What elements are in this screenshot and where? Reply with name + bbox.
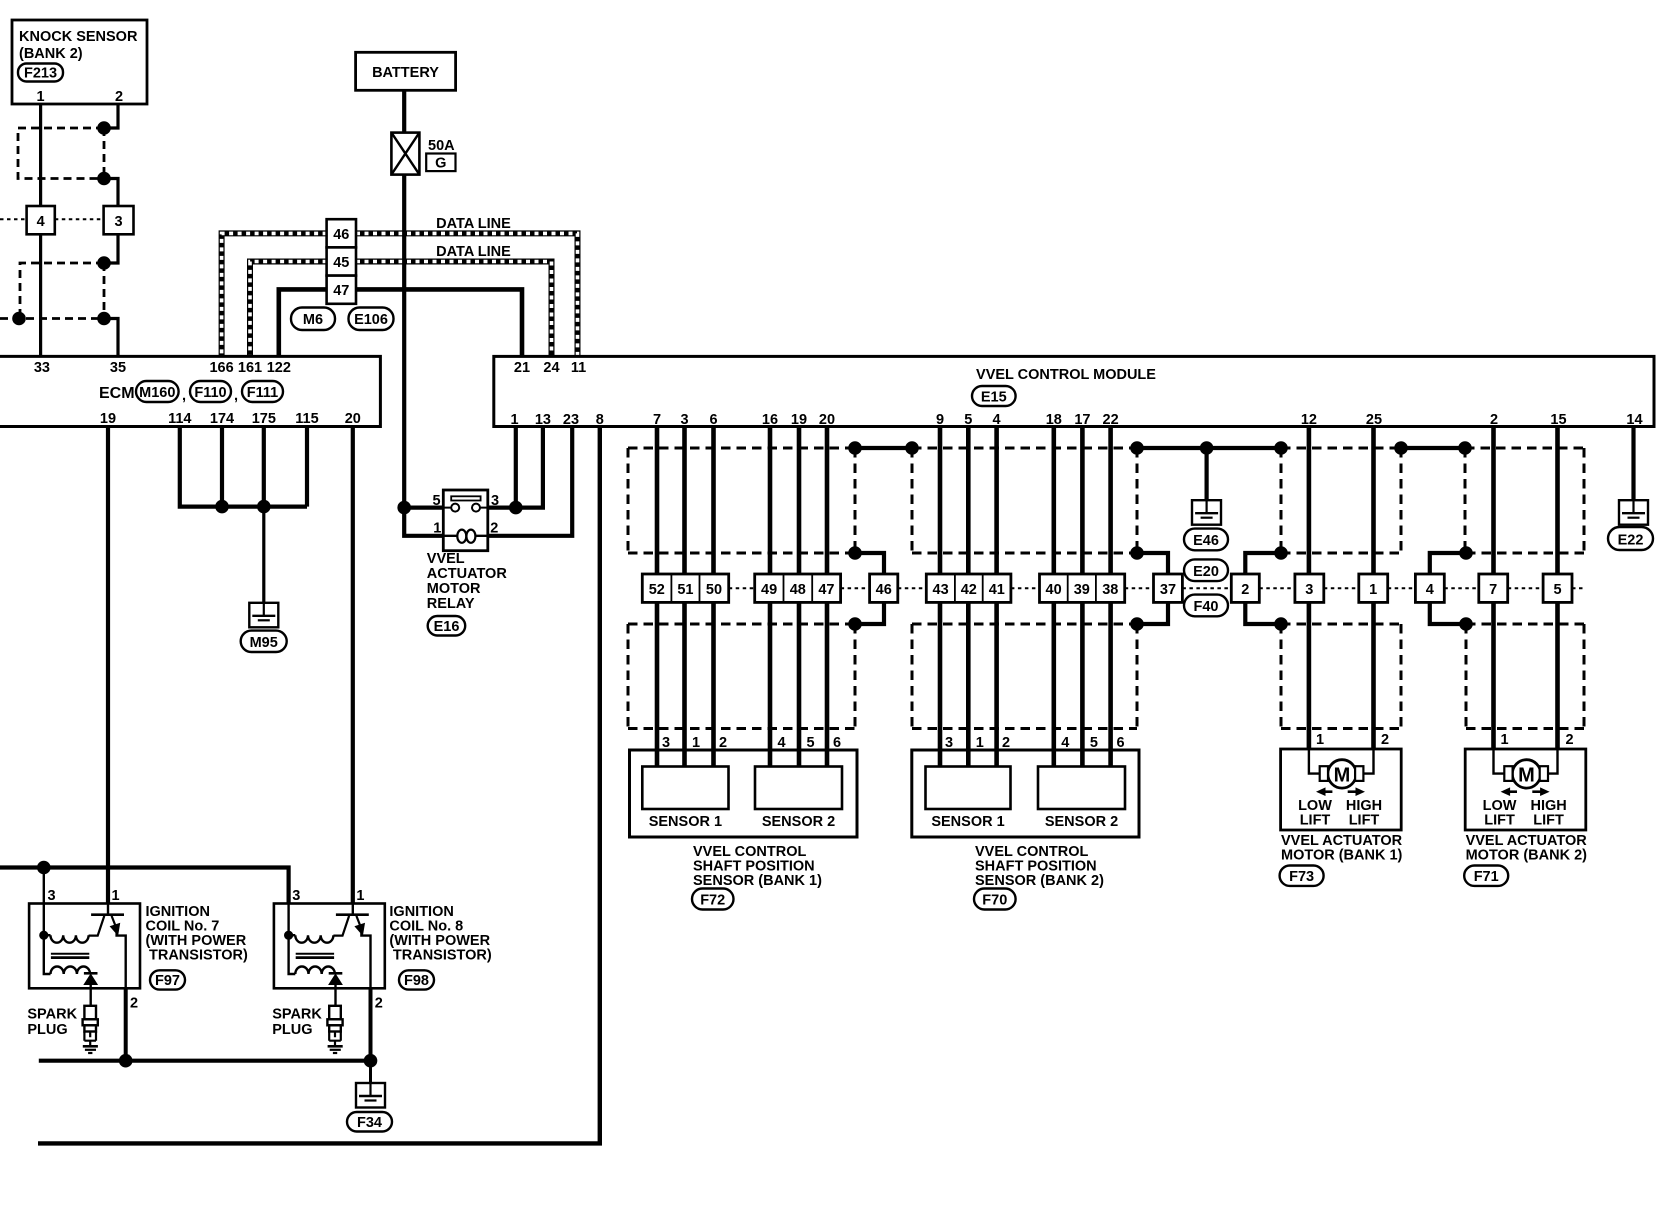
ground symbol F34 xyxy=(356,1083,385,1108)
svg-text:DATA LINE: DATA LINE xyxy=(436,216,511,232)
wire module 14 to ground E22 xyxy=(1631,427,1635,501)
junction dot shield upper top xyxy=(97,121,111,135)
connector box 2 xyxy=(1231,574,1259,602)
VVEL control shaft position sensor bank2 box F70 xyxy=(912,750,1139,837)
svg-text:VVEL CONTROL MODULE: VVEL CONTROL MODULE xyxy=(976,367,1156,383)
connector oval F73 xyxy=(1280,866,1324,886)
svg-text:2: 2 xyxy=(130,996,138,1012)
connector oval F40 xyxy=(1184,595,1228,617)
sensor bank1 pin labels xyxy=(662,735,841,751)
svg-text:1: 1 xyxy=(510,412,518,428)
svg-text:114: 114 xyxy=(168,411,191,427)
svg-text:TRANSISTOR): TRANSISTOR) xyxy=(393,948,492,964)
coil8 pin labels xyxy=(292,888,383,1012)
svg-text:MOTOR (BANK 1): MOTOR (BANK 1) xyxy=(1281,848,1403,864)
wire battery junction to relay pin 1 xyxy=(404,508,443,536)
svg-text:4: 4 xyxy=(993,412,1001,428)
svg-text:,: , xyxy=(234,388,238,404)
wire module 23 to relay pin 2 xyxy=(488,427,572,536)
svg-text:6: 6 xyxy=(709,412,717,428)
junction dot shield lower top xyxy=(97,256,111,270)
svg-text:SENSOR 1: SENSOR 1 xyxy=(931,814,1004,830)
data line 45 striped right run to module 24 xyxy=(356,262,552,357)
svg-text:SENSOR (BANK 1): SENSOR (BANK 1) xyxy=(693,873,822,889)
ignition coil No.8 symbol xyxy=(274,904,385,1054)
sensor bank2 pin labels xyxy=(945,735,1125,751)
svg-text:F111: F111 xyxy=(247,385,278,401)
svg-text:BATTERY: BATTERY xyxy=(372,65,439,81)
svg-text:5: 5 xyxy=(964,412,972,428)
svg-text:2: 2 xyxy=(490,521,498,537)
fuse 50A G xyxy=(391,133,455,175)
label VVEL ACTUATOR MOTOR (BANK 2) xyxy=(1466,833,1588,864)
wire bus to ground F34 xyxy=(369,1061,372,1083)
svg-text:PLUG: PLUG xyxy=(272,1022,312,1038)
junction dot battery relay xyxy=(397,501,411,515)
svg-text:3: 3 xyxy=(680,412,688,428)
svg-text:46: 46 xyxy=(333,227,349,243)
junction dot module1 relay3 xyxy=(509,501,523,515)
label IGNITION COIL No.7 xyxy=(146,904,248,964)
svg-text:E16: E16 xyxy=(434,619,460,635)
ignition coil No.7 symbol xyxy=(29,904,140,1054)
sensor bank2 column wires upper xyxy=(940,427,1111,575)
label SPARK PLUG coil7 xyxy=(27,1007,77,1039)
svg-text:M95: M95 xyxy=(250,635,278,651)
motor1 pin labels xyxy=(1316,732,1389,748)
coil7 pin labels xyxy=(47,888,138,1012)
junction dot shield upper bottom xyxy=(97,172,111,186)
wire coil7 pin2 to bus xyxy=(124,988,128,1060)
ECM box xyxy=(0,356,380,427)
svg-text:PLUG: PLUG xyxy=(27,1022,67,1038)
svg-text:G: G xyxy=(435,156,446,172)
sensor bank1 column wires lower xyxy=(657,602,827,766)
svg-text:1: 1 xyxy=(1501,732,1509,748)
motor1 column wires xyxy=(1309,427,1374,750)
connector boxes 43 42 41 xyxy=(926,574,1011,602)
svg-text:M: M xyxy=(1334,765,1351,787)
module bottom pin labels xyxy=(510,412,1642,428)
connector oval F72 xyxy=(692,889,734,910)
svg-text:1: 1 xyxy=(36,89,44,105)
svg-text:17: 17 xyxy=(1074,412,1090,428)
wire battery junction to relay pin 5 xyxy=(404,506,443,510)
svg-text:VVEL: VVEL xyxy=(427,551,465,567)
label VVEL CONTROL SHAFT POSITION SENSOR (BANK 1) xyxy=(693,844,822,889)
knock sensor (bank 2) box F213 xyxy=(12,20,147,105)
connector box 46 xyxy=(870,574,898,602)
svg-text:39: 39 xyxy=(1074,582,1090,598)
wire ECM 20 to coil8 pin1 xyxy=(351,427,355,904)
sensor bank2 column wires lower xyxy=(940,602,1111,766)
svg-text:50A: 50A xyxy=(428,138,455,154)
data line 45 striped left run to ECM 161 xyxy=(250,262,327,357)
svg-text:8: 8 xyxy=(596,412,604,428)
motor2 pin labels xyxy=(1501,732,1574,748)
svg-text:LIFT: LIFT xyxy=(1533,813,1564,829)
wire ECM 115 to ground bus xyxy=(305,427,309,507)
svg-text:2: 2 xyxy=(1566,732,1574,748)
connector oval E106 xyxy=(349,308,394,331)
svg-text:SPARK: SPARK xyxy=(27,1007,77,1023)
wire battery feed down to relay xyxy=(402,175,406,508)
svg-text:MOTOR: MOTOR xyxy=(427,581,481,597)
shield dashed horizontals top row xyxy=(628,447,1584,450)
connector boxes 52 51 50 xyxy=(642,574,728,602)
junction dots lower shield row xyxy=(848,617,1473,631)
svg-text:3: 3 xyxy=(1305,582,1313,598)
connector box 3 xyxy=(104,206,134,234)
VVEL actuator motor bank2 box F71 xyxy=(1465,749,1586,830)
svg-text:122: 122 xyxy=(267,360,291,376)
svg-text:24: 24 xyxy=(543,360,559,376)
wire drain box46 top xyxy=(855,553,884,574)
wire feed line to coil pin3s xyxy=(0,868,289,904)
label VVEL CONTROL SHAFT POSITION SENSOR (BANK 2) xyxy=(975,844,1104,889)
svg-text:5: 5 xyxy=(1553,582,1561,598)
VVEL actuator motor bank1 box F73 xyxy=(1281,749,1402,830)
svg-text:LIFT: LIFT xyxy=(1300,813,1331,829)
svg-text:20: 20 xyxy=(345,411,361,427)
svg-text:33: 33 xyxy=(34,360,50,376)
wire knock pin2 upper solid segment xyxy=(104,104,118,128)
connector oval E46 xyxy=(1184,529,1228,551)
wire module 8 to bottom bus xyxy=(38,427,600,1144)
svg-text:166: 166 xyxy=(209,360,233,376)
wire drain box4 top xyxy=(1430,553,1466,574)
svg-text:45: 45 xyxy=(333,255,349,271)
svg-text:35: 35 xyxy=(110,360,126,376)
svg-text:SPARK: SPARK xyxy=(272,1007,322,1023)
connector oval E15 xyxy=(972,386,1016,406)
shield dashed line to left margin xyxy=(0,317,104,320)
svg-text:174: 174 xyxy=(210,411,234,427)
svg-text:3: 3 xyxy=(114,214,122,230)
svg-text:49: 49 xyxy=(761,582,777,598)
shield dashed box lower around knock wire xyxy=(20,263,104,319)
svg-text:1: 1 xyxy=(112,888,120,904)
shield dashed horizontals lower top row xyxy=(628,623,1584,626)
connector oval F71 xyxy=(1464,866,1508,886)
svg-text:7: 7 xyxy=(1489,582,1497,598)
wire shield drain to ground E46 xyxy=(1204,448,1208,500)
svg-text:15: 15 xyxy=(1550,412,1566,428)
wire drain box2 top xyxy=(1245,553,1281,574)
label VVEL ACTUATOR MOTOR (BANK 1) xyxy=(1281,833,1403,864)
svg-text:7: 7 xyxy=(653,412,661,428)
svg-text:19: 19 xyxy=(791,412,807,428)
svg-text:SENSOR 2: SENSOR 2 xyxy=(1045,814,1118,830)
data line 46 striped right run to module 11 xyxy=(356,233,578,356)
motor2 column wires xyxy=(1494,427,1558,750)
wire knock pin1 to ECM 33 xyxy=(39,104,42,356)
connector box 3 xyxy=(1295,574,1324,602)
svg-text:DATA LINE: DATA LINE xyxy=(436,244,511,260)
ground symbol M95 xyxy=(249,603,278,628)
svg-text:37: 37 xyxy=(1160,582,1176,598)
svg-text:MOTOR (BANK 2): MOTOR (BANK 2) xyxy=(1466,848,1588,864)
svg-text:25: 25 xyxy=(1366,412,1382,428)
connector oval E22 xyxy=(1608,527,1653,550)
connector oval F97 xyxy=(150,970,185,989)
connector oval E16 xyxy=(428,616,466,636)
svg-text:48: 48 xyxy=(790,582,806,598)
shield dashed verticals upper row xyxy=(628,448,1584,553)
svg-text:E22: E22 xyxy=(1618,533,1644,549)
connector boxes 49 48 47 xyxy=(755,574,841,602)
connector stack boxes 46 45 47 xyxy=(327,219,356,304)
svg-text:KNOCK SENSOR: KNOCK SENSOR xyxy=(19,29,138,45)
junction dot shield left branch xyxy=(12,312,26,326)
svg-text:M: M xyxy=(1518,765,1535,787)
shield dashed horizontals mid row xyxy=(628,552,1584,555)
shield dashed verticals lower row xyxy=(628,624,1584,729)
svg-text:ACTUATOR: ACTUATOR xyxy=(427,566,508,582)
svg-text:3: 3 xyxy=(292,888,300,904)
wire ECM 174 to ground bus xyxy=(220,427,224,507)
wire coil8 pin2 to bus xyxy=(369,988,373,1060)
wire 47 solid left run to ECM 122 xyxy=(279,289,327,356)
wire ECM 114 to ground bus xyxy=(180,427,307,507)
svg-text:2: 2 xyxy=(115,89,123,105)
shield solid links top row xyxy=(855,446,1465,450)
svg-text:21: 21 xyxy=(514,360,530,376)
connector oval M6 xyxy=(291,308,335,331)
svg-text:2: 2 xyxy=(1381,732,1389,748)
svg-text:9: 9 xyxy=(936,412,944,428)
ground symbol E22 xyxy=(1619,500,1648,525)
svg-text:2: 2 xyxy=(1490,412,1498,428)
wire knock pin2 dashed segment 2 xyxy=(103,263,106,319)
wire module 13 to relay pin 3 xyxy=(488,427,543,508)
svg-text:11: 11 xyxy=(571,360,586,376)
svg-text:5: 5 xyxy=(432,493,440,509)
connector box 7 xyxy=(1479,574,1508,602)
svg-text:12: 12 xyxy=(1301,412,1317,428)
svg-text:F34: F34 xyxy=(357,1115,382,1131)
svg-text:22: 22 xyxy=(1103,412,1119,428)
svg-text:SENSOR 1: SENSOR 1 xyxy=(649,814,722,830)
svg-text:14: 14 xyxy=(1626,412,1642,428)
svg-text:52: 52 xyxy=(649,582,665,598)
svg-text:1: 1 xyxy=(1369,582,1377,598)
svg-text:ECM: ECM xyxy=(99,385,135,402)
svg-text:46: 46 xyxy=(876,582,892,598)
junction dots top shield row xyxy=(848,441,1472,455)
wire module 1 to relay junction xyxy=(514,427,518,508)
wire drain box2 bottom xyxy=(1245,602,1281,624)
junction dot coil7 pin3 feed xyxy=(37,861,51,875)
svg-text:47: 47 xyxy=(818,582,834,598)
dotted connector row line xyxy=(729,587,1584,589)
wire knock pin2 into connector 3 xyxy=(104,179,118,207)
svg-text:F71: F71 xyxy=(1474,869,1499,885)
svg-text:50: 50 xyxy=(706,582,722,598)
svg-text:3: 3 xyxy=(47,888,55,904)
junction dots mid shield row xyxy=(848,546,1473,560)
connector oval F98 xyxy=(399,970,434,989)
svg-text:M6: M6 xyxy=(303,312,323,328)
svg-text:RELAY: RELAY xyxy=(427,596,475,612)
connector oval E20 xyxy=(1184,559,1228,581)
label IGNITION COIL No.8 xyxy=(389,904,491,964)
svg-text:SENSOR 2: SENSOR 2 xyxy=(762,814,835,830)
svg-text:161: 161 xyxy=(238,360,262,376)
junction dot 175 bus xyxy=(257,500,271,514)
svg-text:F72: F72 xyxy=(700,893,725,909)
wire knock pin2 dashed segment 1 xyxy=(103,128,106,179)
wire drain box4 bottom xyxy=(1430,602,1466,624)
svg-text:43: 43 xyxy=(933,582,949,598)
svg-text:23: 23 xyxy=(563,412,579,428)
svg-text:16: 16 xyxy=(762,412,778,428)
svg-text:F40: F40 xyxy=(1194,599,1219,615)
connector box 37 xyxy=(1154,574,1183,602)
junction dot 174 bus xyxy=(215,500,229,514)
label ECM with ovals M160 F110 F111 xyxy=(99,381,283,404)
wire ground bus to F34 xyxy=(39,1059,371,1063)
svg-text:4: 4 xyxy=(37,214,45,230)
svg-text:SENSOR (BANK 2): SENSOR (BANK 2) xyxy=(975,873,1104,889)
wire drain box37 bottom xyxy=(1137,602,1168,624)
wire drain box46 bottom xyxy=(855,602,884,624)
wire ECM 175 to ground M95 xyxy=(262,427,266,507)
connector boxes 40 39 38 xyxy=(1040,574,1125,602)
svg-text:E46: E46 xyxy=(1193,533,1219,549)
junction dot shield lower bottom xyxy=(97,312,111,326)
svg-text:20: 20 xyxy=(819,412,835,428)
svg-text:F73: F73 xyxy=(1289,869,1314,885)
svg-text:1: 1 xyxy=(1316,732,1324,748)
svg-text:3: 3 xyxy=(491,493,499,509)
wire knock pin2 below connector 3 xyxy=(104,234,118,263)
connector box 4 xyxy=(27,206,55,234)
connector oval M95 xyxy=(241,631,287,652)
svg-text:(BANK 2): (BANK 2) xyxy=(19,46,83,62)
svg-text:47: 47 xyxy=(333,283,349,299)
svg-text:40: 40 xyxy=(1046,582,1062,598)
wire knock pin2 to ECM 35 xyxy=(104,319,118,357)
svg-text:115: 115 xyxy=(295,411,318,427)
svg-text:2: 2 xyxy=(1241,582,1249,598)
svg-text:13: 13 xyxy=(535,412,551,428)
label SPARK PLUG coil8 xyxy=(272,1007,322,1039)
svg-text:1: 1 xyxy=(433,521,441,537)
svg-text:42: 42 xyxy=(961,582,977,598)
junction dot coil7 bus xyxy=(119,1054,133,1068)
connector box 4 xyxy=(1415,574,1444,602)
wire ECM 19 to coil7 pin1 xyxy=(106,427,110,904)
sensor bank1 column wires upper xyxy=(657,427,827,575)
ground symbol E46 xyxy=(1192,500,1221,525)
svg-text:LIFT: LIFT xyxy=(1484,813,1515,829)
svg-text:TRANSISTOR): TRANSISTOR) xyxy=(149,948,248,964)
shield dashed box upper around knock wire xyxy=(18,128,104,179)
svg-text:F110: F110 xyxy=(194,385,226,401)
wire battery to fuse xyxy=(402,90,406,132)
wire 47 solid right run to module 21 xyxy=(356,289,522,356)
svg-text:E20: E20 xyxy=(1193,564,1219,580)
label VVEL ACTUATOR MOTOR RELAY xyxy=(427,551,508,612)
svg-text:,: , xyxy=(182,388,186,404)
svg-text:F70: F70 xyxy=(982,893,1007,909)
wire branch to coil7 pin3 xyxy=(43,868,45,904)
svg-text:4: 4 xyxy=(1426,582,1434,598)
svg-text:51: 51 xyxy=(677,582,693,598)
svg-text:175: 175 xyxy=(252,411,276,427)
VVEL control module box xyxy=(494,356,1654,426)
svg-text:1: 1 xyxy=(356,888,364,904)
svg-text:41: 41 xyxy=(989,582,1005,598)
connector box 1 xyxy=(1359,574,1388,602)
svg-text:38: 38 xyxy=(1102,582,1118,598)
svg-text:F97: F97 xyxy=(155,973,180,989)
svg-text:F213: F213 xyxy=(24,66,57,82)
dotted connector line row xyxy=(0,218,104,220)
battery box xyxy=(356,52,456,90)
svg-text:LIFT: LIFT xyxy=(1349,813,1380,829)
connector box 5 xyxy=(1543,574,1572,602)
connector oval F34 xyxy=(347,1112,392,1132)
svg-text:M160: M160 xyxy=(139,385,175,401)
shield dashed horizontals bottom row xyxy=(628,727,1584,730)
wire drain box37 top xyxy=(1137,553,1168,574)
svg-text:F98: F98 xyxy=(404,973,429,989)
svg-text:2: 2 xyxy=(375,996,383,1012)
junction dot coil8 bus xyxy=(364,1054,378,1068)
svg-text:18: 18 xyxy=(1046,412,1062,428)
svg-text:19: 19 xyxy=(100,411,116,427)
svg-text:E15: E15 xyxy=(981,390,1007,406)
VVEL control shaft position sensor bank1 box F72 xyxy=(630,750,858,837)
data line 46 striped left run to ECM 166 xyxy=(222,233,327,356)
VVEL actuator motor relay E16 xyxy=(432,490,499,551)
svg-text:E106: E106 xyxy=(354,312,388,328)
connector oval F70 xyxy=(974,889,1016,910)
